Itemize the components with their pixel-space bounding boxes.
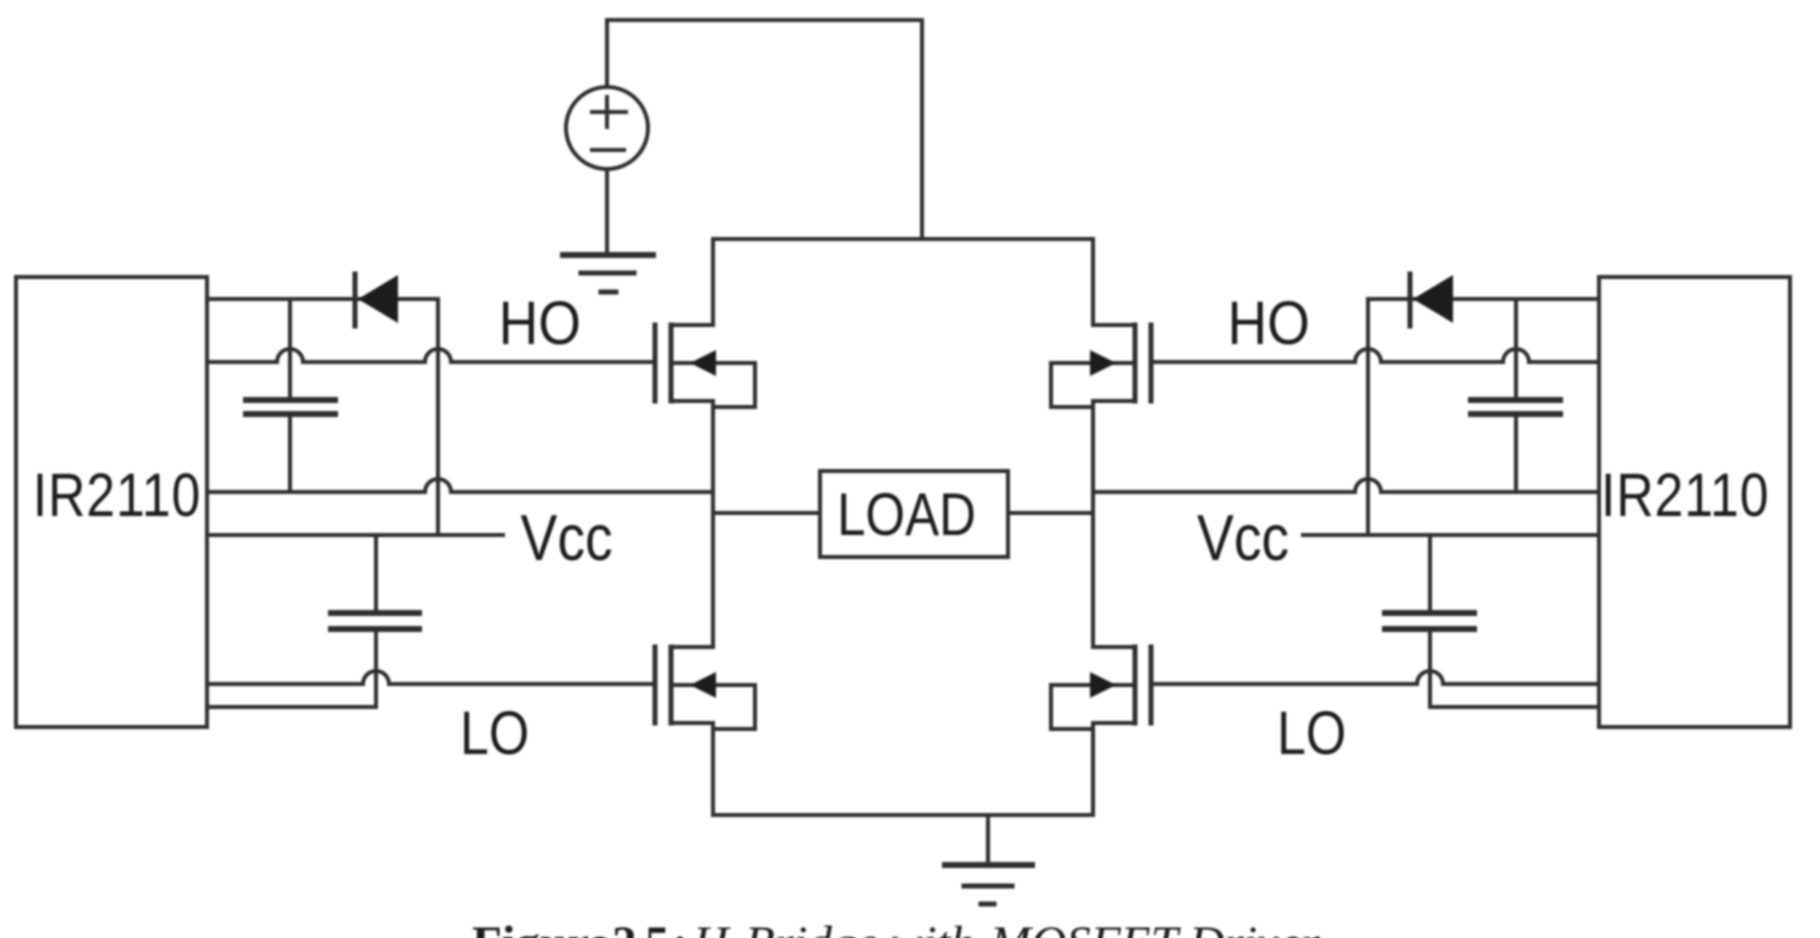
capacitor C4 Vcc bypass right (plates) [1385,613,1474,629]
diode D1 (bootstrap, cathode bar left) [355,274,398,326]
wire C2 bottom lead to COM row [374,631,378,707]
svg-text:IR2110: IR2110 [1601,461,1769,529]
wire Vs row left (U1 Vs pin to left phase rail, hop at x=438) [207,479,713,492]
wire supply top (V1 plus to bridge top rail) [607,20,922,239]
wire bridge top rail [713,237,1093,241]
wire LOAD right lead [1008,511,1093,515]
capacitor C2 Vcc bypass left (plates) [331,613,419,629]
capacitor C3 bootstrap right (plates) [1471,400,1560,414]
wire Vs row right (right phase rail to U2 Vs pin, hop at x=1368) [1093,479,1599,492]
wire C1 bottom lead to Vs row [288,416,292,492]
svg-text:Vcc: Vcc [521,501,613,574]
wire COM row left [207,705,376,709]
wire COM row right [1430,705,1599,709]
svg-text:Figure25:H-Bridge withMOSFETDr: Figure25:H-Bridge withMOSFETDriver [472,916,1321,938]
wire Q4 source lead [1091,723,1095,815]
wire Q3 source lead [711,723,715,815]
wire Vcc row right [1303,533,1599,537]
wire right phase rail (Q2 source to Q4 drain) [1091,401,1095,647]
svg-text:LO: LO [1277,699,1346,767]
wire LO right (Q4 gate to U2 LO pin, hop over C4 lead) [1151,671,1599,684]
wire HO left (U1 HO pin to Q1 gate, hops over C1 lead and D1 node) [207,349,653,362]
LOAD box [820,471,1008,557]
transistor Q1 (upper left NMOS) [655,325,755,407]
wire C4 top lead from Vcc row [1428,535,1432,611]
wire Q1 drain lead [711,239,715,325]
wire D2 node down to Vcc row (x=1368) [1366,299,1370,535]
diode D2 (bootstrap, cathode bar left) [1410,274,1453,326]
wire LOAD left lead [713,511,820,515]
transistor Q4 (lower right NMOS) [1051,647,1151,729]
wire Vcc row left [207,533,503,537]
transistor Q2 (upper right NMOS) [1051,325,1151,407]
svg-text:IR2110: IR2110 [33,461,201,529]
voltage source V1 (supply) [566,20,648,255]
wire C2 top lead from Vcc row [374,535,378,611]
wire left phase rail (Q1 source to Q3 drain) [711,401,715,647]
wire bridge bottom rail [713,813,1093,817]
wire Vb row right (node to U2 top pin) [1368,297,1599,301]
IC U1 IR2110 (left driver) [16,277,207,727]
wire D1 anode down to Vcc row (node at x=438) [436,299,440,535]
wire ground stem bottom [986,815,990,865]
wire C1 top lead [288,299,292,398]
svg-text:LO: LO [460,699,529,767]
wire C4 bottom lead to COM row [1428,631,1432,707]
IC U2 IR2110 (right driver) [1599,277,1790,727]
wire C3 bottom lead to Vs row [1514,416,1518,492]
wire HO right (Q2 gate to U2 HO pin, hops at x=1368 and x=1516) [1151,349,1599,362]
ground (below V1) [563,255,653,292]
capacitor C1 bootstrap left (plates) [246,400,335,414]
wire C3 top lead [1514,299,1518,398]
svg-text:Vcc: Vcc [1197,501,1289,574]
wire Vb row left (U1 top pin to diode/cap node) [207,297,438,301]
svg-text:LOAD: LOAD [837,481,976,548]
wire Q2 drain lead [1091,239,1095,325]
transistor Q3 (lower left NMOS) [655,647,755,729]
wire LO left (U1 LO pin to Q3 gate, hop over C2 lead) [207,671,653,684]
svg-text:HO: HO [499,289,581,357]
svg-text:HO: HO [1228,289,1310,357]
ground (bridge bottom) [945,865,1032,904]
